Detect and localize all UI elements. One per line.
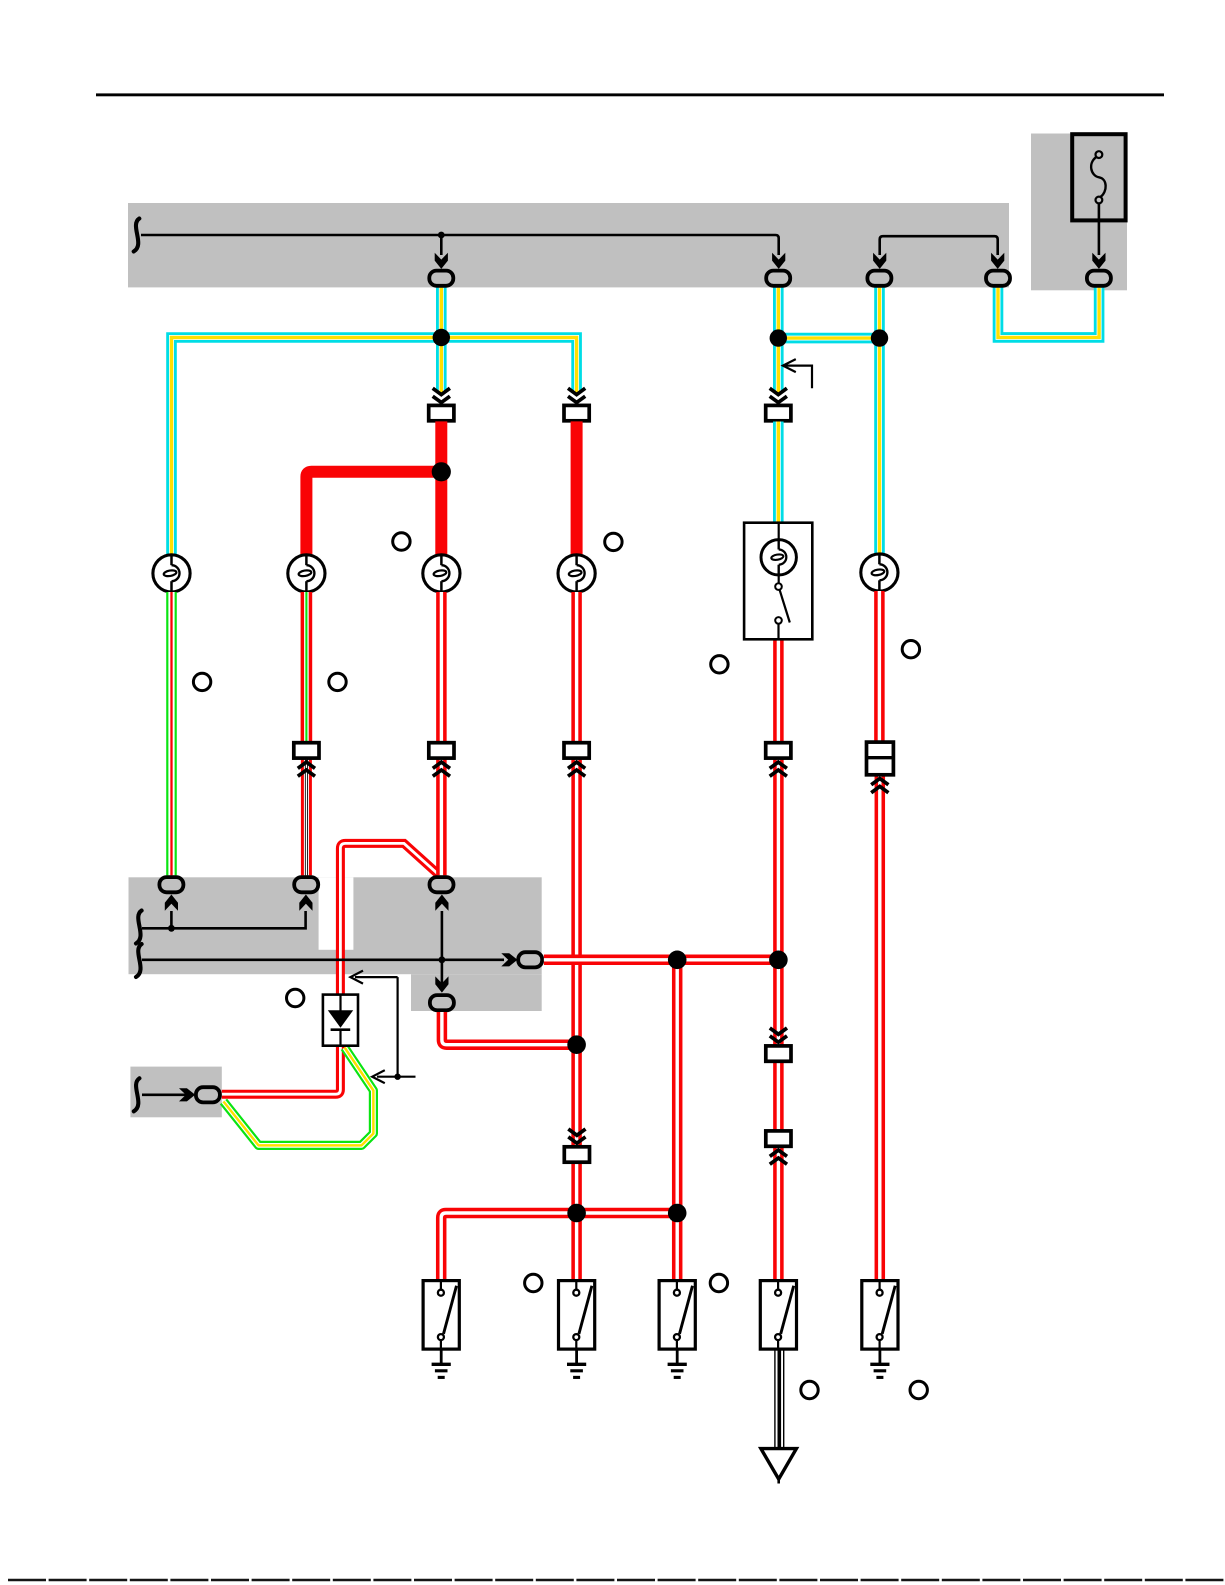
wire: thick red bus from connector 441 to lamp3 xyxy=(435,421,447,555)
wire: fusible link lead down (black) xyxy=(1098,203,1101,255)
connector oval 3 (441,885) xyxy=(430,877,454,892)
switch contact upper xyxy=(778,575,780,583)
junction dot (879,338) xyxy=(871,329,888,346)
wire: black feed 2 in middle band xyxy=(142,958,504,961)
callout circle a xyxy=(393,533,410,550)
gray block (lower left) xyxy=(130,1067,221,1118)
wire: red hairpin lower leg from oval (208,1095) to diode xyxy=(222,1046,341,1095)
connector box (778, row C lower) xyxy=(766,1131,791,1146)
break squiggle on bottom-left feed xyxy=(134,1078,140,1111)
double chevron into connector 778 xyxy=(770,388,787,402)
wire: red pair from oval 4 right to wire 577 xyxy=(442,1012,577,1045)
shielded lead below switch 4 xyxy=(775,1349,784,1452)
switch box lamp xyxy=(761,540,796,575)
junction dot (577,1045) xyxy=(567,1035,586,1054)
arrow down into oval 4 xyxy=(435,976,448,992)
ground below switch 2 xyxy=(567,1349,586,1377)
wire: branch up to oval 1 xyxy=(170,911,173,928)
double connector box (880) xyxy=(867,742,894,775)
white corridor notch in middle band xyxy=(319,877,354,950)
switch 3 xyxy=(659,1281,695,1350)
callout circle i xyxy=(710,1274,727,1291)
break squiggle on feed 2 xyxy=(136,944,142,977)
wire: red pair below connector box down to oval 3 xyxy=(436,759,447,876)
connector box (778, row A) xyxy=(766,405,791,420)
double chevron up below box 306 xyxy=(298,762,315,776)
double chevron into connector 577 (lower) xyxy=(568,1129,585,1143)
wire: red pair below double box down to switch 5 xyxy=(875,775,886,1281)
double chevron into connector 441 xyxy=(433,388,450,402)
lighting switch box xyxy=(744,523,812,640)
junction dot on feed 2 xyxy=(439,956,446,963)
fusible link box (top right) xyxy=(1072,134,1125,220)
connector oval (879) xyxy=(867,271,891,286)
wire: red pair from switch box down to switch 4 xyxy=(773,639,784,1280)
callout arrow to hairpin wire xyxy=(397,977,399,1077)
arrow right into oval (530) xyxy=(501,953,517,966)
connector box (441, row A) xyxy=(429,405,454,420)
connector oval (998) xyxy=(986,271,1010,286)
bottom page edge line xyxy=(8,1579,1225,1581)
arrow into connector (441) xyxy=(435,253,448,269)
junction dot (577,1213) xyxy=(567,1204,586,1223)
connector oval (530,960) xyxy=(518,952,542,967)
callout circle d xyxy=(329,673,346,690)
switch 5 xyxy=(862,1281,898,1350)
wire: bracket feed (black) between connectors 879 and 997 xyxy=(880,236,998,255)
connector oval (778) xyxy=(766,271,790,286)
ground below switch 5 xyxy=(870,1349,889,1377)
double chevron up below box 778 xyxy=(770,762,787,776)
gray junction-block band (middle) xyxy=(129,877,542,974)
arrow into connector (997) xyxy=(991,253,1004,269)
double chevron up below box 441 xyxy=(433,762,450,776)
callout circle b xyxy=(605,533,622,550)
lamp 2 xyxy=(288,555,325,592)
gray relay-box band (top) xyxy=(128,203,1009,287)
junction dot (778,960) xyxy=(769,951,788,970)
connector box (441, row B) xyxy=(429,743,454,758)
gray block around fusible link (top right) xyxy=(1031,134,1127,291)
callout circle k xyxy=(910,1381,927,1398)
connector box (577, row C) xyxy=(564,1147,589,1162)
connector oval (1099) xyxy=(1087,271,1111,286)
wire: G-Y loop from diode to oval (208,1095) xyxy=(224,1048,374,1146)
double chevron into connector 778 (lower) xyxy=(770,1028,787,1042)
wire: branch up to oval 3 and down to oval 4 xyxy=(441,911,444,987)
open arrow terminal (to body ground) xyxy=(761,1449,797,1484)
arrow up into oval 1 xyxy=(165,895,178,911)
wire: L-Y U-jumper between connectors 998 and 1099 xyxy=(998,288,1099,338)
connector box (577, row B) xyxy=(564,743,589,758)
ground below switch 1 xyxy=(432,1349,451,1377)
wire: red pair lamp5 down to double connector box xyxy=(874,591,885,742)
double chevron into connector 577 xyxy=(568,388,585,402)
wire: L-Y drop from junction to connector 441 xyxy=(436,338,447,394)
wire: branch down to connector at 441 xyxy=(440,235,443,255)
wire: R-G wire lamp2 down to connector box xyxy=(301,592,313,742)
lamp 1 (left marker lamp) xyxy=(153,555,190,592)
callout circle j xyxy=(801,1381,818,1398)
wire: R-B wire below connector box down to oval 2 xyxy=(301,759,312,876)
lamp 4 xyxy=(558,555,595,592)
gray extension below middle band xyxy=(411,974,542,1011)
connector box (778, row C upper) xyxy=(766,1046,791,1061)
wire: L-Y feed from connector 778 down xyxy=(773,288,784,393)
connector oval (208,1095) xyxy=(196,1087,220,1102)
break squiggle on battery feed xyxy=(134,219,140,252)
callout circle c xyxy=(193,673,210,690)
callout circle g xyxy=(287,989,304,1006)
callout arrow at wire 778 xyxy=(785,366,813,389)
callout circle f xyxy=(902,641,919,658)
break squiggle on feed 1 xyxy=(136,911,142,944)
wire: L-Y feed from connector 441 down to junction xyxy=(436,288,447,338)
arrow right into oval (208,1095) xyxy=(179,1088,195,1101)
junction dot (677,960) xyxy=(668,951,687,970)
diode box xyxy=(323,995,358,1046)
wire: red hairpin from oval 3 up-over to diode xyxy=(340,843,438,995)
connector box (577, row A) xyxy=(564,405,589,420)
junction dot (778,338) xyxy=(770,329,787,346)
wire: black feed (bottom left block) xyxy=(142,1094,188,1097)
wire: red pair branch at 677 down to switch 3 xyxy=(672,960,683,1281)
double chevron up below box 577 xyxy=(568,762,585,776)
callout arrow to G-Y wire xyxy=(377,1076,416,1078)
diode D (cathode down) xyxy=(328,995,353,1046)
arrow up into oval 3 xyxy=(435,895,448,911)
switch box lead top xyxy=(778,523,780,540)
wire: main battery feed (black) in top band xyxy=(141,235,779,255)
callout circle h xyxy=(525,1274,542,1291)
switch 1 (door courtesy switch) xyxy=(423,1281,459,1350)
fusible link element xyxy=(1091,151,1106,203)
wire: thick red branch to lamp2 xyxy=(306,472,441,556)
junction dot on callout lines xyxy=(394,1074,400,1080)
junction on battery feed xyxy=(438,232,445,239)
arrow into connector (778) xyxy=(772,253,785,269)
switch contact lower xyxy=(775,617,782,624)
callout circle e xyxy=(711,656,728,673)
connector oval 4 (442,1003) xyxy=(430,995,454,1010)
ground below switch 3 xyxy=(668,1349,687,1377)
arrow into connector (879) xyxy=(873,253,886,269)
lamp 5 (right tail lamp) xyxy=(861,554,898,591)
top horizontal rule xyxy=(96,93,1164,96)
wire: G-R wire lamp1 down to connector oval 1 xyxy=(166,592,177,875)
junction dot (441,337) xyxy=(433,329,450,346)
double chevron up below lower box 778 xyxy=(770,1150,787,1164)
wire: L-Y from connector 778 down to lighting switch box xyxy=(773,422,784,523)
wire: L-Y run (left to lamp1, right to connector 577) xyxy=(172,338,577,556)
connector oval 2 (306,885) xyxy=(294,877,318,892)
connector oval 1 (171,885) xyxy=(159,877,183,892)
wire: black feed 1 in middle band xyxy=(142,911,306,928)
double chevron up below double box 880 xyxy=(871,779,888,793)
arrow into connector (1099) xyxy=(1092,253,1105,269)
junction dot (441,472) xyxy=(432,462,451,481)
wire: L-Y link between junctions 778 and 879 xyxy=(778,333,879,344)
wire: red pair lamp3 down to connector box xyxy=(436,592,447,742)
wire: L-Y feed from connector 879 down to lamp5 xyxy=(874,288,885,555)
wire: red pair lamp4 down through junctions to switch 2 xyxy=(571,592,582,1281)
wire: red pair from oval 530 to wire 778 xyxy=(544,955,779,966)
wire: thick red bus from connector 577 to lamp4 xyxy=(571,421,583,555)
connector box (306, row B) xyxy=(294,743,319,758)
connector box (778, row B) xyxy=(766,743,791,758)
lamp 3 xyxy=(423,555,460,592)
switch 2 xyxy=(559,1281,595,1350)
wire: red pair crossbar to switch 1 xyxy=(441,1213,677,1281)
connector oval (441) xyxy=(429,271,453,286)
arrow up into oval 2 xyxy=(299,895,312,911)
switch 4 xyxy=(760,1281,796,1350)
junction dot on feed 1 xyxy=(168,925,175,932)
switch blade xyxy=(780,590,790,623)
junction dot (677,1213) xyxy=(668,1204,687,1223)
